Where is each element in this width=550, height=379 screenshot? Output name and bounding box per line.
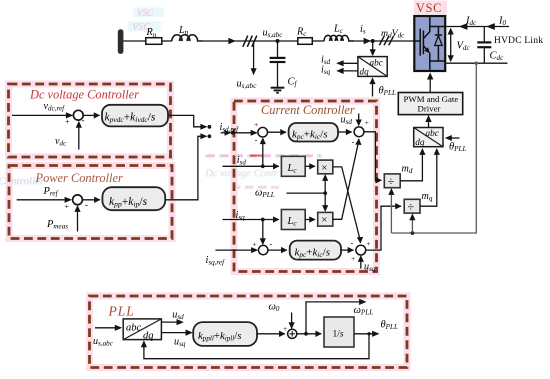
vdc feedback input <box>55 121 82 150</box>
svg-text:÷: ÷ <box>388 174 395 188</box>
Vdc feedback line (gray) <box>391 62 478 235</box>
wire PI d to output summer <box>338 131 352 133</box>
divider block q <box>404 199 420 213</box>
ground <box>271 88 285 93</box>
svg-text:md: md <box>402 163 413 175</box>
svg-text:ωPLL: ωPLL <box>255 187 275 199</box>
summer d-axis <box>254 120 268 145</box>
svg-text:Power Controller: Power Controller <box>35 171 123 185</box>
current I0 arrow <box>486 16 506 30</box>
Vdc to divider d <box>388 188 394 233</box>
cross-coupling q to d <box>333 139 359 219</box>
svg-text:+: + <box>283 324 287 333</box>
isq branch down to summer q <box>260 220 266 246</box>
usq output wire to divider q <box>366 206 401 250</box>
dc bus top wire <box>445 26 509 28</box>
dc bus bottom wire <box>445 62 507 64</box>
omega branch to multiplier q <box>322 193 328 212</box>
svg-text:Rc: Rc <box>296 27 307 39</box>
capacitor Cdc <box>477 27 504 64</box>
output summer q <box>351 238 371 264</box>
isq,ref input <box>206 247 259 266</box>
wire summer to PI q <box>268 249 287 251</box>
wire node to Rc <box>278 40 298 42</box>
svg-text:-: - <box>351 238 354 248</box>
vdc,ref input <box>12 101 73 119</box>
wire Ln to usabc node with mid arrow <box>202 38 278 44</box>
usq wire to PLL PI <box>161 330 193 348</box>
inductor Lc <box>324 24 353 42</box>
svg-text:isq: isq <box>321 65 331 77</box>
svg-text:ω0: ω0 <box>269 301 280 313</box>
svg-text:×: × <box>321 162 327 174</box>
svg-text:dq: dq <box>360 67 370 77</box>
svg-text:θPLL: θPLL <box>379 86 396 98</box>
svg-text:-: - <box>85 200 88 210</box>
svg-text:dq: dq <box>143 330 154 341</box>
svg-text:1/s: 1/s <box>333 329 344 339</box>
svg-text:mdVdc: mdVdc <box>381 28 405 40</box>
usq feedforward stub <box>358 255 376 273</box>
svg-text:vdc: vdc <box>55 136 67 148</box>
wire summer to PI d <box>268 131 287 133</box>
PI block kpp+kip/s <box>102 187 165 210</box>
svg-text:Cdc: Cdc <box>490 51 505 63</box>
wire summer to PI <box>84 114 100 116</box>
svg-text:PLL: PLL <box>108 304 135 319</box>
PI block kpc+kic/s (d) <box>289 123 338 142</box>
svg-text:vdc,ref: vdc,ref <box>44 101 66 113</box>
wire Lc to VSC with is arrow <box>352 24 415 44</box>
thetaPLL into sensing block <box>369 77 396 97</box>
resistor Rn <box>146 27 162 44</box>
converter VSC <box>414 16 445 71</box>
resistor Rc <box>296 27 312 45</box>
Vdc measuring double arrow <box>448 28 471 63</box>
thetaPLL output <box>354 319 398 337</box>
svg-text:us,abc: us,abc <box>237 79 258 91</box>
svg-text:-: - <box>255 135 258 145</box>
isd feedback branch up <box>260 137 266 166</box>
PWM and Gate Driver box <box>398 93 462 115</box>
svg-text:is: is <box>360 24 366 36</box>
gain block Lc (q) <box>281 210 305 230</box>
svg-text:+: + <box>366 239 370 248</box>
multiplier (d) <box>318 160 333 174</box>
PLL transform abc-dq block <box>123 319 161 341</box>
Pmeas feedback input <box>46 205 81 232</box>
isq input line <box>223 210 279 222</box>
output summer d <box>352 118 370 147</box>
capacitor Cf <box>270 41 298 88</box>
gain block Lc (d) <box>281 156 305 176</box>
VSC label <box>414 1 447 15</box>
node at filter tap <box>276 39 280 43</box>
svg-text:÷: ÷ <box>408 200 415 214</box>
svg-text:Dc voltage Controller: Dc voltage Controller <box>29 88 139 102</box>
modulation transform dq-abc block <box>414 128 443 148</box>
svg-text:usq: usq <box>174 336 186 348</box>
PLL box <box>90 296 408 368</box>
PLL feedback to dq <box>141 332 371 359</box>
isq output stub <box>321 65 358 77</box>
svg-text:ωPLL: ωPLL <box>354 305 374 317</box>
isd output stub <box>321 55 358 67</box>
usd output wire to divider <box>364 132 381 181</box>
svg-text:+: + <box>365 118 369 127</box>
summer q-axis <box>253 239 273 255</box>
wire dq-abc to PWM <box>425 115 431 128</box>
wire summer to integrator <box>297 332 321 336</box>
PI block kpc+kic/s (q) <box>290 241 341 260</box>
svg-text:+: + <box>253 240 257 249</box>
node is tap <box>371 39 375 43</box>
usd stub out of PLL block <box>161 309 184 325</box>
md wire to dq-abc <box>400 148 425 181</box>
wire Rc to Lc <box>312 40 324 42</box>
Current Controller box <box>234 101 377 272</box>
multiplier (q) <box>318 212 333 226</box>
wire bus to Rn <box>123 40 145 42</box>
svg-text:dq: dq <box>415 137 425 147</box>
sensing transform abc-dq block <box>358 41 387 77</box>
thetaPLL into dq-abc <box>445 135 467 153</box>
wire PI q to output summer <box>341 249 353 251</box>
current Idc arrow <box>459 16 477 30</box>
us,abc input to PLL <box>93 325 122 348</box>
cross-coupling d to q <box>333 167 361 243</box>
svg-text:PWM and Gate: PWM and Gate <box>404 94 459 104</box>
svg-text:isq,ref: isq,ref <box>206 255 226 267</box>
svg-text:-: - <box>270 239 273 249</box>
svg-text:Driver: Driver <box>418 104 441 114</box>
Vdc to divider q <box>409 213 415 233</box>
omegaPLL input <box>255 187 327 199</box>
svg-text:Cf: Cf <box>288 77 298 89</box>
omegaPLL branch out <box>306 299 373 334</box>
svg-text:HVDC Link: HVDC Link <box>494 36 543 46</box>
svg-text:I0: I0 <box>498 16 507 28</box>
isd input line <box>223 155 279 168</box>
svg-text:abc: abc <box>126 323 142 334</box>
three-phase slashes at converter <box>379 36 393 46</box>
svg-text:Dc voltage Contr: Dc voltage Contr <box>205 168 280 179</box>
inductor Ln <box>172 25 202 41</box>
three-phase slashes <box>243 36 257 47</box>
wire Rn to Ln <box>162 40 172 42</box>
svg-text:+: + <box>65 202 70 211</box>
mq wire to dq-abc <box>420 148 440 206</box>
svg-text:abc: abc <box>370 58 383 68</box>
us,abc measurement arrow down <box>237 42 258 91</box>
summer (power) <box>65 195 89 211</box>
svg-text:VSC: VSC <box>137 8 154 18</box>
summer (vdc) <box>65 110 85 126</box>
usd feedforward stub <box>341 114 362 127</box>
wire Lc to multiplier q <box>305 219 315 221</box>
isd,ref input <box>220 122 258 136</box>
svg-text:mq: mq <box>422 191 433 203</box>
Power Controller box <box>9 166 172 239</box>
svg-text:us,abc: us,abc <box>93 336 114 348</box>
svg-text:+: + <box>254 120 258 129</box>
svg-text:Vdc: Vdc <box>457 41 471 53</box>
svg-text:θPLL: θPLL <box>381 319 398 331</box>
integrator block 1/s <box>324 317 354 347</box>
svg-text:Lc: Lc <box>333 24 344 36</box>
svg-text:usd: usd <box>172 309 184 321</box>
omega summer (circle with plus) <box>283 324 297 338</box>
omega0 input <box>269 301 295 329</box>
grid bus bar <box>118 29 124 54</box>
svg-text:Pmeas: Pmeas <box>46 219 68 231</box>
svg-text:×: × <box>321 214 327 226</box>
svg-text:+: + <box>65 118 70 127</box>
svg-text:abc: abc <box>426 128 439 138</box>
PI block kppll+kipll/s <box>193 322 257 346</box>
Dc voltage Controller box <box>9 84 171 157</box>
svg-text:θPLL: θPLL <box>449 142 466 154</box>
divider block d <box>384 174 400 188</box>
wire PI to omega summer <box>257 333 285 335</box>
wire dc controller output to isd,ref terminal <box>168 115 211 129</box>
wire power controller output to terminal <box>165 133 211 200</box>
svg-text:VSC: VSC <box>416 1 442 15</box>
svg-text:us,abc: us,abc <box>263 28 284 40</box>
watermark ghost marks (decorative) <box>0 8 322 188</box>
svg-text:-: - <box>82 115 85 125</box>
svg-text:Idc: Idc <box>465 16 477 28</box>
svg-text:Pref: Pref <box>43 186 59 198</box>
wire summer to PI <box>82 199 100 201</box>
svg-text:Ln: Ln <box>178 25 189 37</box>
omega branch to multiplier d <box>322 174 328 193</box>
PI block kpvdc+kivdc/s <box>102 105 168 127</box>
wire Lc to multiplier d <box>305 165 315 167</box>
svg-text:+: + <box>351 254 355 263</box>
wire PWM to VSC <box>427 73 433 93</box>
Pref input <box>17 186 72 203</box>
svg-text:-: - <box>352 137 355 147</box>
